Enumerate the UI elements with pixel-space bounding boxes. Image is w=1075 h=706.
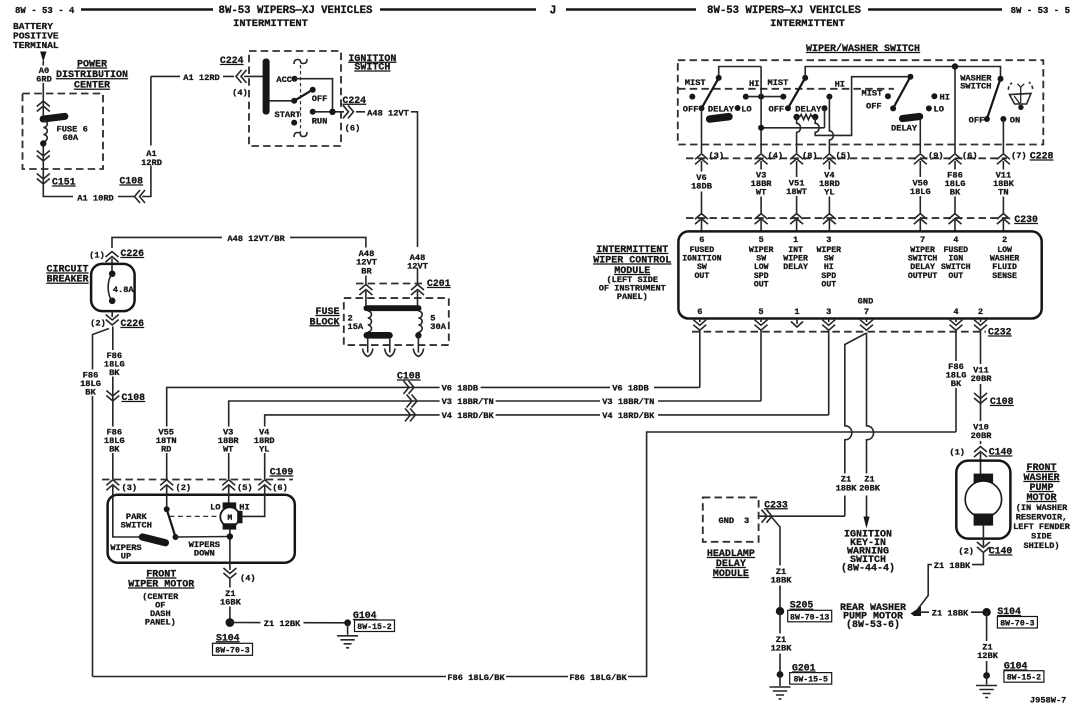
wire Z1 18BK from pin 7 with hop bbox=[845, 333, 867, 516]
svg-text:C226: C226 bbox=[121, 248, 145, 259]
svg-text:START: START bbox=[275, 110, 301, 120]
svg-text:WT: WT bbox=[756, 188, 766, 198]
svg-text:3: 3 bbox=[826, 307, 831, 317]
ground symbol G201 bbox=[779, 675, 781, 687]
wire A48 12VT to fuse block bbox=[356, 112, 418, 285]
svg-text:(7): (7) bbox=[1011, 151, 1027, 161]
label Z1 18BK S205 bbox=[767, 566, 795, 586]
svg-text:BK: BK bbox=[950, 188, 961, 198]
section2 delay resistor left dot bbox=[793, 114, 799, 120]
label Z1 18BK / Z1 20BK bbox=[835, 474, 882, 496]
svg-text:(IN WASHER: (IN WASHER bbox=[1016, 503, 1068, 513]
svg-text:SWITCH: SWITCH bbox=[121, 520, 152, 530]
svg-text:HI: HI bbox=[940, 92, 950, 102]
svg-text:18BK: 18BK bbox=[771, 576, 793, 586]
svg-text:C224: C224 bbox=[343, 95, 367, 106]
wire pin4 column bbox=[760, 67, 762, 154]
splice S104 bbox=[226, 618, 235, 627]
C232 chevron pin 3 bbox=[822, 320, 835, 331]
svg-text:C140: C140 bbox=[989, 546, 1013, 557]
svg-text:BK: BK bbox=[109, 368, 120, 378]
svg-text:6: 6 bbox=[699, 235, 704, 245]
svg-text:5: 5 bbox=[759, 235, 764, 245]
C232 chevron pin 7 bbox=[860, 320, 873, 331]
stubs module to C232 bbox=[700, 319, 981, 323]
svg-text:A48 12VT/BR: A48 12VT/BR bbox=[227, 234, 285, 244]
svg-text:SHIELD): SHIELD) bbox=[1023, 541, 1059, 551]
svg-text:C108: C108 bbox=[990, 396, 1014, 407]
svg-text:V6 18DB: V6 18DB bbox=[442, 383, 479, 393]
section2 OFF contact bbox=[785, 105, 791, 111]
ground symbol G104 right bbox=[986, 676, 988, 685]
svg-text:DISTRIBUTION: DISTRIBUTION bbox=[56, 70, 128, 81]
svg-text:(5): (5) bbox=[237, 483, 253, 493]
svg-text:GND: GND bbox=[858, 297, 874, 307]
PDC internal connector down bbox=[37, 151, 50, 162]
svg-text:OFF: OFF bbox=[683, 104, 699, 114]
svg-text:30A: 30A bbox=[430, 322, 446, 332]
label V11 20BR bbox=[967, 364, 995, 384]
ignition key-in warning switch arrow bbox=[863, 517, 869, 529]
svg-text:(8): (8) bbox=[802, 151, 818, 161]
svg-text:C108: C108 bbox=[397, 371, 421, 382]
svg-text:MIST: MIST bbox=[768, 78, 789, 88]
label V6 18DB left bbox=[440, 381, 481, 393]
headlamp delay module dashed box bbox=[703, 497, 759, 541]
svg-text:DELAY: DELAY bbox=[795, 104, 822, 114]
connector C228 dashed line bbox=[686, 157, 1007, 159]
S205 reference box bbox=[788, 610, 832, 622]
svg-text:G201: G201 bbox=[792, 663, 816, 674]
svg-text:ON: ON bbox=[1010, 116, 1020, 126]
label V6 18DB right bbox=[610, 381, 654, 393]
connector C230 dashed line bbox=[686, 217, 1008, 219]
svg-text:(8W-53-6): (8W-53-6) bbox=[846, 619, 900, 631]
svg-text:7: 7 bbox=[920, 235, 925, 245]
svg-text:8W-53 WIPERS—XJ VEHICLES: 8W-53 WIPERS—XJ VEHICLES bbox=[219, 5, 374, 17]
pin 6 description bbox=[682, 246, 1019, 289]
svg-text:UP: UP bbox=[121, 551, 131, 561]
mechanical dashed link to motor bbox=[170, 515, 221, 517]
washer ON contact bbox=[1000, 116, 1006, 122]
wire label V3 18BR WT bbox=[748, 170, 775, 197]
junction dot column4 lower bbox=[758, 125, 764, 131]
park switch wiper bar bbox=[138, 533, 170, 547]
svg-text:4.8A: 4.8A bbox=[113, 285, 135, 295]
wires C228 to C230 bbox=[701, 161, 703, 214]
label F86 18LG/BK right bbox=[568, 670, 628, 683]
connector C108 on F86 bbox=[106, 391, 119, 402]
label F86 18LG BK pin4 bbox=[943, 361, 970, 388]
svg-text:G104: G104 bbox=[1004, 661, 1028, 672]
washer OFF contact bbox=[984, 116, 990, 122]
wire pin8 column with hop bbox=[797, 117, 801, 153]
breaker element arc bbox=[108, 274, 112, 301]
C228 chevron pin 8 bbox=[790, 154, 803, 165]
svg-text:16BK: 16BK bbox=[220, 598, 242, 608]
G201 reference box bbox=[790, 673, 832, 685]
svg-text:12VT: 12VT bbox=[407, 262, 428, 272]
connector C151 bbox=[37, 174, 50, 185]
svg-text:C151: C151 bbox=[52, 177, 76, 188]
wire headlamp module to Z1 18BK bbox=[759, 515, 845, 517]
svg-text:(2): (2) bbox=[958, 547, 974, 557]
wire pin 6 to V6 run bbox=[699, 331, 701, 388]
svg-text:8W-70-13: 8W-70-13 bbox=[790, 613, 829, 622]
svg-text:(4): (4) bbox=[240, 574, 256, 584]
wire S205 to G201 bbox=[779, 611, 781, 674]
C228 chevron pin 9 bbox=[914, 154, 927, 165]
C228 chevron pin 3 bbox=[695, 154, 708, 165]
svg-text:8W-15-5: 8W-15-5 bbox=[793, 676, 827, 685]
washer motor top brush bbox=[974, 474, 994, 485]
motor HI brush bbox=[237, 511, 242, 524]
label V4 18RD/BK left bbox=[440, 409, 496, 421]
wires into fuse block bbox=[365, 291, 367, 306]
C232 chevron pin 5 bbox=[755, 320, 768, 331]
section1 LO contact bbox=[735, 105, 741, 111]
C109 chevron pin 5 bbox=[222, 480, 235, 491]
svg-text:(2): (2) bbox=[90, 319, 106, 329]
svg-text:2: 2 bbox=[1002, 235, 1007, 245]
OFF contact bbox=[310, 87, 316, 93]
svg-text:5: 5 bbox=[758, 307, 763, 317]
section3 arm pivot dot bbox=[907, 74, 913, 80]
svg-text:PANEL): PANEL) bbox=[617, 292, 648, 302]
label A48 12VT vertical bbox=[403, 247, 433, 268]
svg-text:20BR: 20BR bbox=[971, 431, 993, 441]
wire motor to return junction bbox=[229, 530, 231, 570]
rear washer feed arrow bbox=[911, 607, 922, 617]
label Z1 12BK bbox=[974, 641, 1001, 661]
svg-text:(1): (1) bbox=[89, 251, 105, 261]
svg-text:20BR: 20BR bbox=[971, 374, 993, 384]
breaker top contact bbox=[109, 271, 116, 278]
wire pin 5 to V3 run bbox=[760, 331, 762, 402]
wires C230 to module bbox=[701, 220, 703, 231]
header rule left bbox=[81, 8, 213, 11]
fuse 6 node dot bbox=[40, 140, 46, 146]
fuse 6 element bar bbox=[39, 112, 69, 122]
svg-text:Z1 18BK: Z1 18BK bbox=[932, 609, 969, 619]
wire delay bus column4 to LO2 bbox=[761, 127, 824, 129]
wire RUN to C224 bbox=[313, 111, 344, 113]
svg-text:C109: C109 bbox=[270, 467, 294, 478]
motor armature bbox=[220, 507, 239, 526]
svg-text:(3): (3) bbox=[709, 151, 725, 161]
C228 chevron pin 6 bbox=[949, 154, 962, 165]
svg-text:WIPER MOTOR: WIPER MOTOR bbox=[128, 580, 194, 591]
inner F86 18LG BK label lower bbox=[102, 427, 127, 454]
park arm contact dot bbox=[173, 534, 179, 540]
C232 chevron pin 6 bbox=[693, 320, 706, 331]
svg-text:OFF: OFF bbox=[312, 94, 328, 104]
section3 HI contact bbox=[931, 93, 937, 99]
park pivot dot bbox=[164, 506, 170, 512]
svg-text:INTERMITTENT: INTERMITTENT bbox=[596, 245, 668, 256]
svg-text:8W-15-2: 8W-15-2 bbox=[1007, 674, 1041, 683]
svg-text:BLOCK: BLOCK bbox=[309, 317, 339, 328]
wire A1 12RD horizontal to C224 bbox=[151, 75, 234, 77]
C108 chevron on V6 bbox=[404, 381, 415, 394]
wire branch to S205 bbox=[772, 518, 780, 608]
washer motor armature bbox=[965, 481, 1001, 517]
C109 chevron pin 3 bbox=[106, 480, 119, 491]
svg-text:(4): (4) bbox=[768, 151, 784, 161]
svg-text:18BK: 18BK bbox=[836, 483, 858, 493]
RUN contact bbox=[310, 109, 316, 115]
wire A48 12VT/BR from circuit breaker to fuse block bbox=[112, 237, 366, 285]
svg-text:(9): (9) bbox=[928, 151, 944, 161]
C109 chevron pin 2 bbox=[160, 480, 173, 491]
svg-text:WT: WT bbox=[223, 445, 233, 455]
wire LO2 down to delay bus bbox=[824, 108, 826, 128]
outer F86 18LG BK label bbox=[79, 370, 104, 397]
C230 chevrons bbox=[695, 214, 708, 225]
intermittent wiper control module box bbox=[678, 231, 1041, 318]
svg-text:LO: LO bbox=[934, 105, 944, 115]
svg-text:Z1 12BK: Z1 12BK bbox=[264, 619, 301, 629]
svg-text:HI: HI bbox=[749, 79, 759, 89]
svg-text:12RD: 12RD bbox=[141, 158, 162, 168]
svg-text:YL: YL bbox=[259, 445, 269, 455]
label Z1 18BK to S104 bbox=[929, 606, 971, 619]
fuse 2 coil bbox=[368, 311, 372, 332]
svg-text:BK: BK bbox=[951, 379, 962, 389]
svg-text:LEFT FENDER: LEFT FENDER bbox=[1013, 522, 1071, 532]
svg-text:WIPER/WASHER SWITCH: WIPER/WASHER SWITCH bbox=[806, 43, 920, 55]
connector C109 dashed line bbox=[102, 479, 293, 481]
wire into breaker bbox=[111, 259, 113, 276]
wire A0 6RD battery to PDC bbox=[42, 61, 44, 116]
squiggle top bbox=[294, 59, 307, 64]
wire label V50 18LG bbox=[907, 177, 935, 196]
wire pin 2 V11 column bbox=[980, 331, 982, 445]
wire Z1 20BK from pin 7 with hop bbox=[867, 333, 874, 518]
svg-text:F86 18LG/BK: F86 18LG/BK bbox=[569, 673, 627, 683]
svg-text:8W - 53 - 5: 8W - 53 - 5 bbox=[1011, 6, 1070, 16]
wire pin5 column with hop bbox=[829, 97, 833, 153]
wire pin2 to park pivot bbox=[166, 486, 168, 509]
label F86 18LG/BK left bbox=[446, 670, 506, 683]
label Z1 16BK bbox=[217, 588, 243, 607]
wire label V4 18RD YL bbox=[816, 170, 843, 197]
section2 delay resistor right dot bbox=[812, 114, 818, 120]
svg-text:V4 18RD/BK: V4 18RD/BK bbox=[442, 411, 495, 421]
fuse 2 output bar bbox=[364, 332, 393, 339]
PDC internal connector up bbox=[37, 101, 50, 112]
wire PDC to C151 to corner bbox=[43, 146, 134, 197]
svg-text:(1): (1) bbox=[949, 448, 965, 458]
svg-text:C233: C233 bbox=[764, 499, 788, 510]
ground G104 left bbox=[344, 619, 351, 626]
G104 reference box bbox=[1004, 671, 1044, 683]
svg-text:SWITCH: SWITCH bbox=[354, 63, 390, 74]
junction dot bbox=[329, 109, 335, 115]
label V3 18BR WT column bbox=[215, 427, 242, 454]
park switch arm bbox=[167, 509, 176, 537]
section1 OFF contact bbox=[699, 105, 705, 111]
svg-text:BK: BK bbox=[85, 388, 96, 398]
switch pivot wire bbox=[270, 100, 295, 102]
svg-text:6: 6 bbox=[697, 307, 702, 317]
inner F86 18LG BK label upper bbox=[102, 350, 127, 377]
svg-text:18DB: 18DB bbox=[691, 182, 713, 192]
switch arm to OFF bbox=[294, 90, 313, 101]
svg-text:DOWN: DOWN bbox=[194, 549, 215, 559]
svg-text:PANEL): PANEL) bbox=[145, 617, 176, 627]
header rule bbox=[566, 8, 696, 11]
wire top link section2 to washer switch bbox=[805, 67, 1000, 79]
section2 HI contact bbox=[826, 94, 832, 100]
svg-text:V4 18RD/BK: V4 18RD/BK bbox=[602, 411, 655, 421]
ignition switch feed bar bbox=[263, 59, 270, 115]
header rule bbox=[380, 8, 536, 11]
section1 delay contact bar bbox=[705, 112, 733, 123]
wire pin3 column bbox=[701, 108, 703, 153]
wire label A1 10RD bbox=[73, 190, 118, 203]
svg-text:A48 12VT: A48 12VT bbox=[367, 109, 409, 119]
svg-text:C201: C201 bbox=[427, 278, 451, 289]
wire HI1 to MIST2 through column4 bbox=[746, 96, 784, 98]
svg-text:(3): (3) bbox=[122, 483, 138, 493]
svg-text:20BK: 20BK bbox=[859, 483, 881, 493]
C232 chevron pin 4 bbox=[950, 320, 963, 331]
return junction dot bbox=[227, 533, 233, 539]
svg-text:12BK: 12BK bbox=[771, 644, 793, 654]
svg-text:6RD: 6RD bbox=[36, 75, 52, 85]
section2 arm bbox=[788, 78, 805, 108]
washer arm pivot dot bbox=[998, 76, 1004, 82]
svg-text:LO: LO bbox=[210, 502, 220, 512]
fuse 5 coil bbox=[418, 311, 422, 332]
svg-text:GND: GND bbox=[719, 516, 735, 526]
power distribution center dashed box bbox=[23, 94, 104, 170]
fuse 5 node dot bbox=[415, 332, 421, 338]
ground G201 bbox=[777, 671, 784, 678]
wire into washer motor bbox=[980, 453, 982, 477]
svg-text:J: J bbox=[550, 5, 557, 18]
svg-text:(6): (6) bbox=[345, 124, 361, 134]
washer motor bottom brush bbox=[974, 514, 994, 526]
ignition switch dashed box bbox=[249, 51, 341, 146]
wire below breaker bbox=[111, 311, 113, 317]
fuse 2 output prongs bbox=[367, 339, 369, 353]
ignition switch mechanical dashed link bbox=[300, 65, 302, 133]
label V3 18BR/TN right bbox=[600, 395, 658, 407]
junction dot pin6 feed bbox=[952, 63, 958, 69]
section1 arm pivot dot bbox=[716, 75, 722, 81]
motor LO brush bbox=[223, 502, 237, 508]
svg-text:C108: C108 bbox=[120, 176, 144, 187]
svg-text:A1 12RD: A1 12RD bbox=[183, 73, 220, 83]
svg-text:V3 18BR/TN: V3 18BR/TN bbox=[442, 397, 494, 407]
section2 MIST contact bbox=[780, 94, 786, 100]
wire pin5 to motor bbox=[228, 486, 230, 503]
svg-text:C226: C226 bbox=[121, 318, 145, 329]
label V3 18BR/TN left bbox=[440, 395, 496, 407]
connector C201 bbox=[356, 283, 425, 285]
svg-text:RD: RD bbox=[161, 445, 171, 455]
section2 LO contact bbox=[822, 105, 828, 111]
wire pin6 to HI brush bbox=[243, 486, 265, 516]
svg-text:M: M bbox=[228, 515, 233, 523]
svg-text:MIST: MIST bbox=[862, 89, 883, 99]
washer arm bbox=[987, 79, 1001, 119]
svg-text:(8W-44-4): (8W-44-4) bbox=[841, 563, 895, 575]
svg-text:MODULE: MODULE bbox=[713, 569, 749, 580]
section2 delay resistor bbox=[800, 114, 813, 119]
label V10 20BR bbox=[967, 421, 995, 441]
svg-text:ACC: ACC bbox=[276, 75, 292, 85]
svg-text:V6 18DB: V6 18DB bbox=[612, 383, 649, 393]
svg-text:C230: C230 bbox=[1014, 214, 1038, 225]
svg-text:(6): (6) bbox=[962, 151, 978, 161]
svg-text:18LG: 18LG bbox=[910, 187, 931, 197]
connector C232 dashed line bbox=[692, 331, 986, 333]
circuit breaker box bbox=[91, 264, 135, 311]
svg-text:60A: 60A bbox=[63, 133, 79, 143]
svg-text:F86 18LG/BK: F86 18LG/BK bbox=[447, 673, 505, 683]
wiper/washer switch dashed box bbox=[678, 60, 1044, 144]
svg-text:C228: C228 bbox=[1030, 151, 1054, 162]
washer nozzle dot bbox=[1018, 105, 1023, 110]
bottom F86 18LG/BK long wire bbox=[93, 432, 957, 677]
section3 OFF contact bbox=[890, 105, 896, 111]
svg-text:OFF: OFF bbox=[769, 104, 785, 114]
header rule bbox=[868, 8, 1002, 11]
wire pin7 column bbox=[1002, 119, 1004, 153]
wire label V11 18BK TN bbox=[990, 170, 1017, 197]
junction dot column4 upper bbox=[758, 94, 764, 100]
svg-text:OFF: OFF bbox=[969, 116, 985, 126]
svg-text:1: 1 bbox=[794, 307, 799, 317]
svg-text:8W-15-2: 8W-15-2 bbox=[357, 623, 391, 632]
wire pin3 into park switch bbox=[113, 486, 140, 537]
wire pin9 column bbox=[919, 120, 921, 154]
label V4 18RD/BK right bbox=[600, 409, 658, 421]
svg-text:(2): (2) bbox=[176, 483, 192, 493]
fuse block dashed box bbox=[344, 298, 449, 345]
squiggle bottom bbox=[294, 132, 307, 137]
svg-text:8W - 53 - 4: 8W - 53 - 4 bbox=[15, 6, 75, 16]
motor bottom brush bbox=[223, 523, 237, 529]
label A48 12VT BR vertical bbox=[352, 248, 381, 276]
wire V3 18BR/TN horizontal run bbox=[229, 401, 761, 479]
svg-text:BK: BK bbox=[109, 445, 120, 455]
wire F86 inner column down to C109 (3) bbox=[112, 327, 114, 480]
svg-text:A1 10RD: A1 10RD bbox=[77, 193, 114, 203]
battery terminal arrow bbox=[40, 52, 46, 63]
breaker bottom contact bbox=[109, 298, 116, 305]
front washer pump motor box bbox=[956, 461, 1010, 539]
wire Z1 12BK to G104 bbox=[230, 622, 348, 624]
front wiper motor box bbox=[108, 495, 295, 563]
wire V4 18RD/BK horizontal run bbox=[265, 415, 829, 479]
svg-text:1: 1 bbox=[793, 235, 798, 245]
wire Z1 16BK to S104 bbox=[229, 579, 231, 623]
washer nozzle icon bbox=[1008, 82, 1032, 104]
wire ACC to RUN junction bbox=[295, 79, 333, 112]
ground symbol G104 left bbox=[347, 623, 349, 635]
svg-text:SWITCH: SWITCH bbox=[960, 82, 991, 92]
svg-text:Z1 18BK: Z1 18BK bbox=[934, 561, 971, 571]
svg-text:RESERVOIR,: RESERVOIR, bbox=[1016, 513, 1068, 523]
wire washer motor to C140 2 bbox=[982, 526, 984, 546]
svg-text:8W-70-3: 8W-70-3 bbox=[1000, 620, 1034, 629]
G104 reference box left bbox=[355, 620, 395, 632]
wire label V51 18WT bbox=[783, 177, 811, 196]
